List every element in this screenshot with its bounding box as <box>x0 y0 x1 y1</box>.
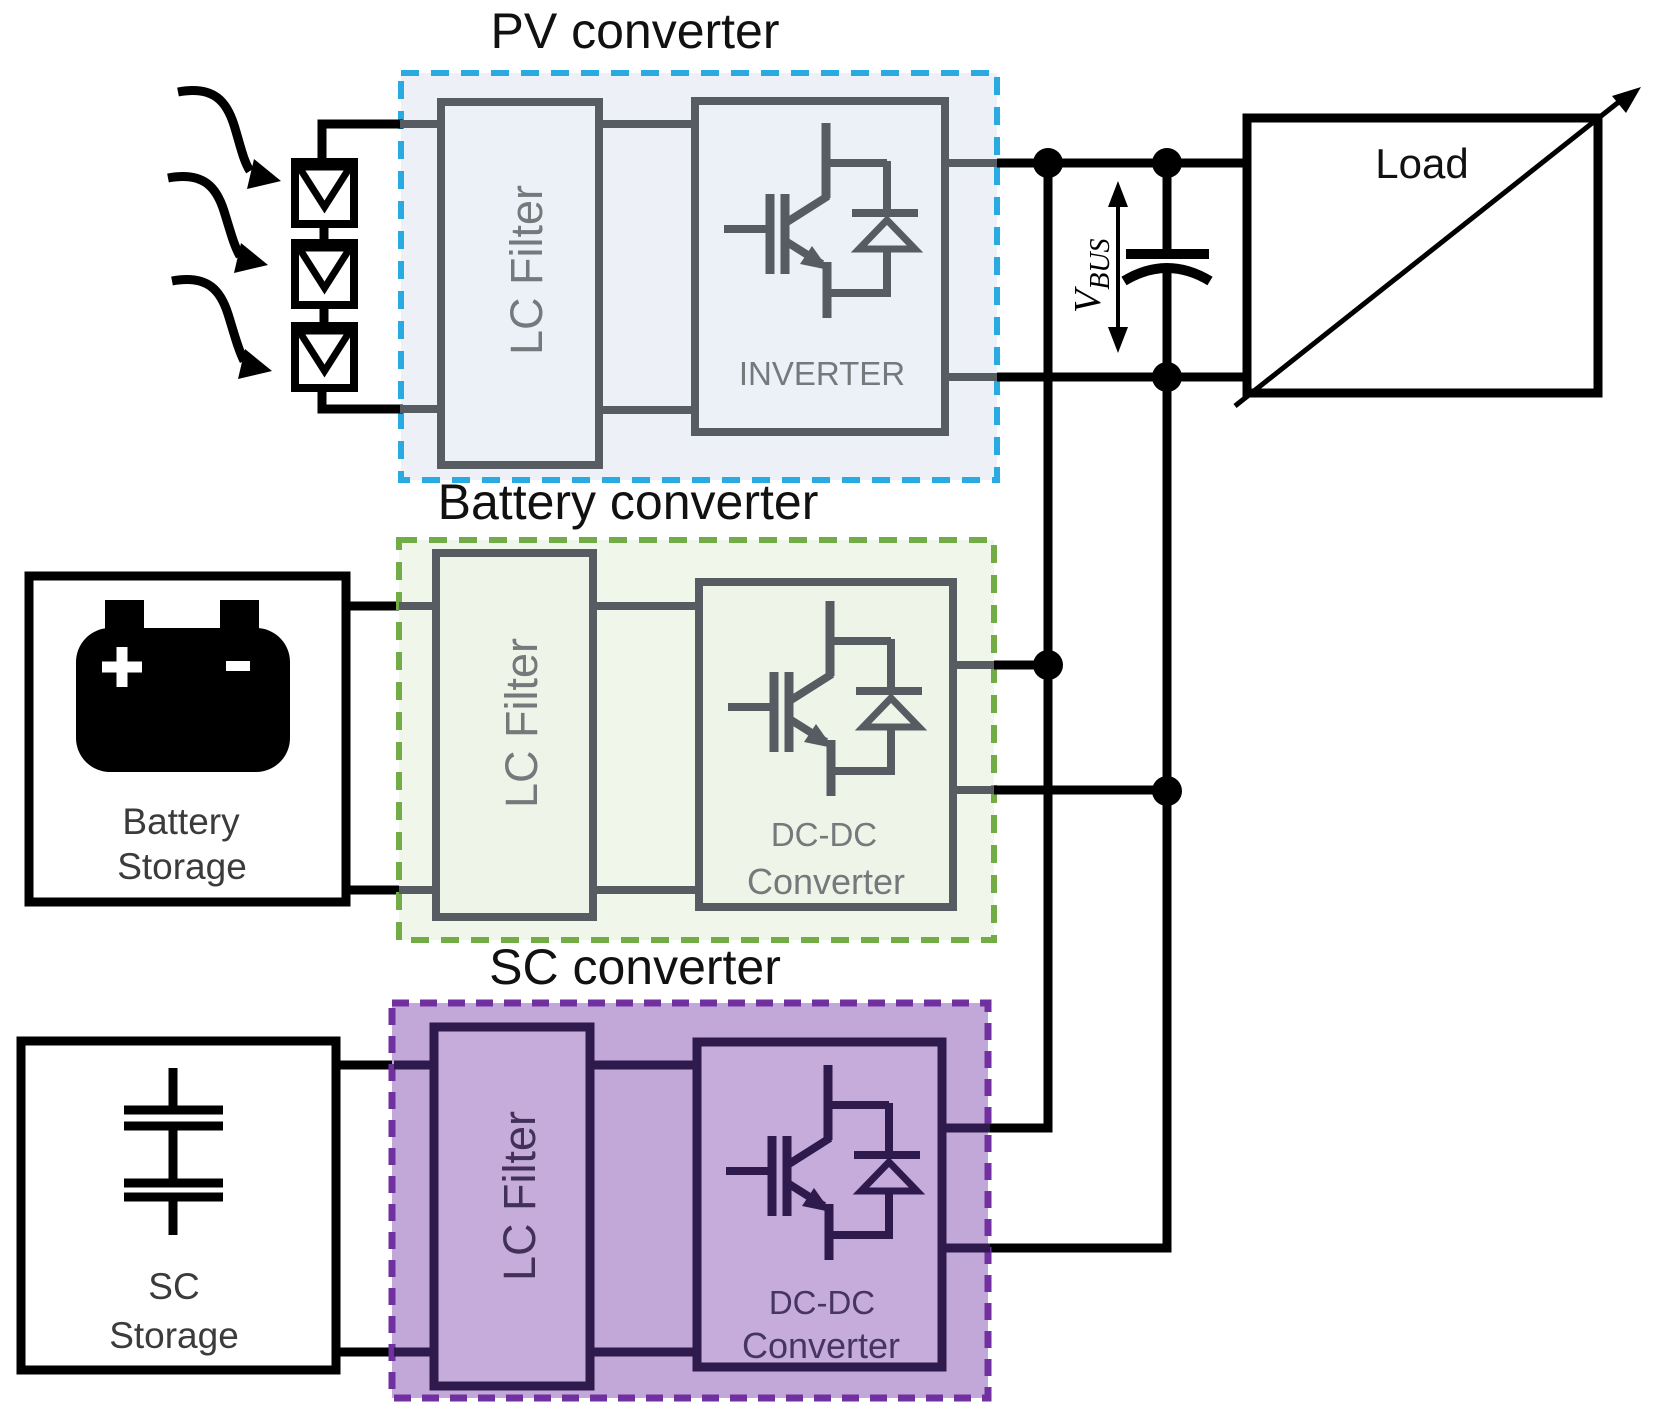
svg-text:Load: Load <box>1375 140 1468 187</box>
wire: battery leads <box>346 606 403 890</box>
battery icon plus sign <box>102 647 142 687</box>
wire: top DC bus <box>997 159 1247 168</box>
Load box <box>1247 118 1598 393</box>
capacitor C_BUS curved bottom plate <box>1124 268 1210 281</box>
wire: battery outputs to bus <box>994 665 1167 790</box>
wire: left bus drop <box>988 163 1048 1128</box>
Battery Storage box <box>29 576 346 902</box>
supercapacitor plates <box>124 1110 223 1197</box>
node: junction dot bus+ / left drop <box>1033 148 1063 178</box>
svg-text:SC: SC <box>148 1266 199 1307</box>
node: junction dot battery out- <box>1152 776 1182 806</box>
svg-text:DC-DC: DC-DC <box>771 816 877 853</box>
capacitor C_BUS top plate <box>1126 249 1209 259</box>
wire: right bus drop <box>988 163 1167 1248</box>
DC-DC converter (SC) <box>697 1042 942 1367</box>
SC Storage box <box>21 1041 336 1370</box>
svg-text:Battery: Battery <box>122 801 240 842</box>
node: junction dot bus+ / capacitor <box>1152 148 1182 178</box>
sun ray arrow 1 <box>178 90 250 171</box>
LC filter (SC) <box>434 1027 590 1386</box>
V_BUS dimension arrow line <box>1116 199 1120 337</box>
svg-text:DC-DC: DC-DC <box>769 1284 875 1321</box>
wire: LC to DC-DC (purple) <box>590 1065 697 1352</box>
inverter U1 <box>695 101 945 432</box>
wire: PV cell series connectors <box>320 226 329 324</box>
supercapacitor leads <box>169 1068 178 1235</box>
SC converter dashed enclosure <box>392 1003 988 1398</box>
PV converter dashed enclosure <box>401 73 997 480</box>
wire: inverter output stubs (gray) <box>945 163 999 377</box>
load arrowhead <box>1612 87 1641 113</box>
battery icon negative terminal <box>220 600 259 630</box>
battery icon positive terminal <box>105 600 144 630</box>
V_BUS arrowhead up <box>1108 181 1128 207</box>
wire: PV bottom lead <box>322 387 403 409</box>
LC filter (PV) <box>441 102 599 465</box>
wire: SC converter output stubs (purple) <box>942 1128 990 1248</box>
PV cell 3 <box>295 326 354 388</box>
LC filter (battery) <box>436 553 593 917</box>
node: junction dot bus- / capacitor <box>1152 362 1182 392</box>
svg-text:Converter: Converter <box>747 861 905 902</box>
svg-text:Converter: Converter <box>742 1325 900 1366</box>
sun ray arrow 3 <box>172 279 244 361</box>
svg-text:LC Filter: LC Filter <box>501 185 552 355</box>
wire: LC to DC-DC (gray) <box>593 606 699 890</box>
svg-text:LC Filter: LC Filter <box>494 1111 545 1281</box>
svg-text:INVERTER: INVERTER <box>739 355 905 392</box>
svg-text:Storage: Storage <box>117 846 247 887</box>
node: junction dot battery out+ <box>1033 650 1063 680</box>
load diagonal line <box>1235 101 1620 406</box>
wire: battery converter output stubs (gray) <box>953 665 996 790</box>
battery icon body <box>76 628 290 772</box>
svg-text:Battery converter: Battery converter <box>438 474 819 530</box>
PV cell 1 <box>295 162 354 224</box>
svg-text:SC converter: SC converter <box>489 939 781 995</box>
wire: LC to inverter (gray) <box>599 124 695 410</box>
DC-DC converter (battery) <box>699 582 953 907</box>
wire: SC input stubs (purple) <box>394 1065 434 1352</box>
battery icon minus sign <box>226 661 250 671</box>
svg-text:LC Filter: LC Filter <box>496 638 547 808</box>
Battery converter dashed enclosure <box>399 540 994 940</box>
wire: battery input stubs (gray) <box>399 606 436 890</box>
svg-text:PV converter: PV converter <box>490 3 779 59</box>
wire: SC leads <box>336 1065 396 1352</box>
wire: bottom DC bus <box>997 373 1247 382</box>
svg-text:Storage: Storage <box>109 1315 239 1356</box>
wire: PV top lead <box>322 124 403 162</box>
wire: PV input stubs (gray) <box>400 124 441 409</box>
V_BUS arrowhead down <box>1108 327 1128 353</box>
sun ray arrow 2 <box>168 176 240 256</box>
PV cell 2 <box>295 243 354 305</box>
